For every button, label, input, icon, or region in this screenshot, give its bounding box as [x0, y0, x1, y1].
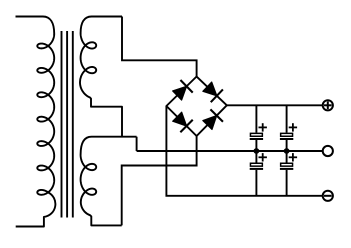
- diode D3 (bridge left corner to bottom corner): [173, 112, 193, 132]
- wire center tap to 0V rail: [136, 137, 138, 151]
- diode bridge diamond: [166, 77, 226, 137]
- diode D1 (bridge left corner to top corner): [173, 80, 193, 100]
- capacitor C2 polarized (between 0 and - rails): [250, 153, 267, 170]
- capacitor C3 polarized (between + and 0 rails): [280, 123, 297, 140]
- wire capacitor branch 1 leads: [255, 105, 257, 196]
- terminal - output: [323, 191, 333, 201]
- wire positive output rail: [227, 104, 323, 106]
- wire capacitor branch 2 leads: [286, 105, 288, 196]
- terminal 0 output: [323, 146, 333, 156]
- terminal + output: [323, 100, 333, 110]
- transformer T1 secondary winding upper half with leads: [80, 17, 122, 137]
- wire negative output rail from bridge left corner: [166, 106, 322, 196]
- capacitor C1 polarized (between + and 0 rails): [250, 123, 267, 140]
- transformer T1 primary winding with leads: [16, 17, 56, 227]
- junction node on 0V rail at branch 1: [254, 148, 260, 154]
- diode D4 (bridge bottom corner to right corner): [203, 109, 223, 129]
- wire AC1: secondary top lead to bridge top corner: [122, 17, 197, 77]
- transformer T1 secondary winding lower half with leads: [81, 137, 137, 226]
- wire AC2: secondary bottom lead to bridge bottom corner: [122, 136, 197, 225]
- diode D2 (bridge top corner to right corner): [203, 82, 223, 102]
- transformer core: [62, 31, 73, 218]
- wire 0V output rail: [137, 150, 323, 152]
- capacitor C4 polarized (between 0 and - rails): [280, 153, 297, 170]
- junction node on 0V rail at branch 2: [284, 148, 290, 154]
